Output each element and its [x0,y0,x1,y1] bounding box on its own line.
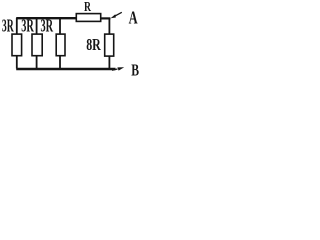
wire bottom stub 1 [16,55,18,68]
resistor R2 (box, value 3R, leftmost) [12,34,22,56]
wire from R1 to node A junction [101,17,111,19]
wire stub 1 (top rail down to first 3R) [16,18,18,35]
wire bottom stub 2 [36,55,38,68]
wire top rail [16,17,76,19]
wire bottom stub 3 [59,55,61,68]
node A (arrow into junction) [114,12,122,16]
svg-text:3R: 3R [2,15,14,35]
wire stub below 8R [108,56,110,69]
svg-text:B: B [131,61,139,80]
resistor R3 (box, value 3R, middle) [32,34,42,56]
wire bottom rail [16,68,115,71]
node B (arrow out of bottom rail) [112,69,118,70]
svg-text:R: R [84,0,92,15]
resistor R1 (box, horizontal, value R) [76,14,100,22]
svg-text:8R: 8R [86,35,101,54]
wire stub 2 [36,18,38,35]
svg-text:3R: 3R [41,15,54,35]
resistor R4 (box, value 3R, rightmost) [56,34,65,56]
svg-text:3R: 3R [21,15,34,35]
resistor R5 (box, vertical, value 8R) [105,34,114,56]
svg-text:A: A [129,8,138,28]
wire stub 3 [59,18,61,35]
wire junction down to 8R [108,18,110,35]
